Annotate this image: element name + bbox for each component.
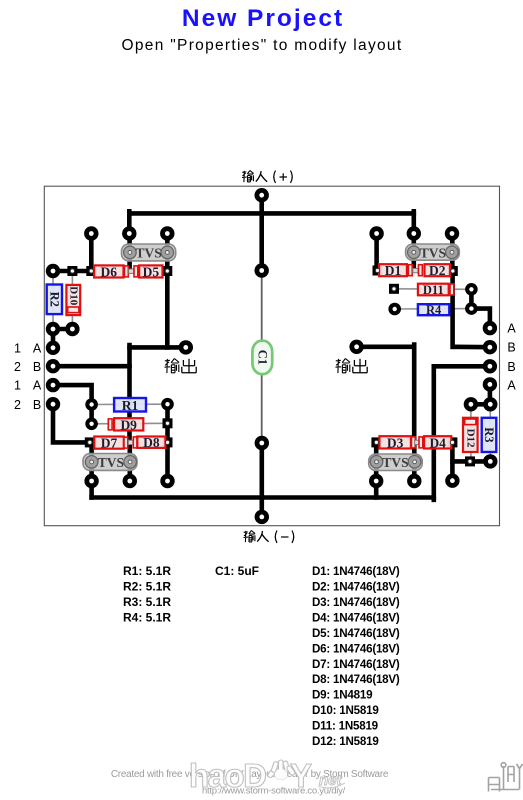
wire D12 R3 bottoms	[453, 459, 491, 464]
wire out-right down	[412, 345, 417, 443]
pad D9 left	[85, 418, 98, 431]
svg-text:TVS: TVS	[98, 455, 124, 470]
resistor R3	[482, 418, 497, 452]
svg-text:D4: 1N4746(18V): D4: 1N4746(18V)	[312, 611, 400, 624]
wire 2B to vertical	[53, 364, 130, 369]
svg-text:New Project: New Project	[182, 5, 344, 32]
svg-text:B: B	[33, 398, 41, 412]
wire to B pad	[434, 364, 490, 369]
junction D6-D5	[129, 269, 134, 273]
pad out-left	[179, 340, 193, 354]
svg-text:D12: D12	[464, 429, 476, 448]
pad 2B-1	[46, 359, 60, 373]
TVS1	[122, 244, 176, 261]
svg-text:D11: D11	[423, 283, 444, 297]
diode D1	[379, 263, 407, 278]
svg-text:D1: D1	[385, 263, 402, 278]
wire down to 1A	[51, 329, 56, 348]
svg-text:TVS: TVS	[382, 455, 408, 470]
wire to B pad right	[453, 344, 490, 349]
band D3	[412, 437, 416, 448]
band D2	[419, 265, 423, 276]
pad N5	[407, 226, 421, 240]
diode D11	[418, 283, 449, 297]
pad R3 top	[483, 397, 497, 411]
svg-text:D6: 1N4746(18V): D6: 1N4746(18V)	[312, 642, 400, 655]
svg-text:D8: 1N4746(18V): D8: 1N4746(18V)	[312, 673, 400, 686]
svg-text:R2: 5.1R: R2: 5.1R	[123, 580, 171, 594]
svg-text:R4: 5.1R: R4: 5.1R	[123, 610, 171, 624]
svg-text:D3: D3	[387, 435, 404, 450]
svg-text:D5: D5	[143, 264, 160, 279]
wire bus up right	[431, 366, 436, 500]
svg-text:haoD: haoD	[189, 757, 266, 794]
pad P6	[445, 474, 459, 488]
wire 1A to R1 D9	[53, 385, 92, 424]
svg-text:TVS: TVS	[420, 245, 446, 260]
wire D5 to out-left	[165, 234, 170, 348]
svg-text:B: B	[33, 360, 41, 374]
TVS3	[83, 454, 137, 471]
band D10	[68, 307, 79, 313]
pad N1	[84, 226, 98, 240]
diode D5	[139, 264, 162, 279]
svg-text:A: A	[507, 322, 516, 336]
pad N3	[160, 226, 174, 240]
pad D5 pin1	[162, 266, 172, 276]
pad D7 pin1	[85, 437, 95, 447]
pad P5	[407, 474, 421, 488]
diode D10	[66, 285, 80, 315]
pad 2B-2	[46, 397, 60, 411]
pad D9 pin1	[163, 418, 173, 428]
pad 1A-1	[46, 341, 60, 355]
wire R1 D9 D8 column	[165, 404, 170, 481]
wire R1 lead	[92, 403, 168, 405]
diode D3	[379, 435, 411, 450]
pad D2 pin1	[448, 266, 458, 276]
band D7	[124, 437, 128, 448]
wire through TVS4 left	[374, 442, 379, 481]
svg-text:D7: D7	[101, 436, 118, 451]
band D8	[133, 437, 137, 448]
wire out-left horiz	[130, 345, 186, 350]
svg-text:D8: D8	[143, 435, 160, 450]
pad D4 pin1	[447, 437, 457, 447]
pad D10 pin1	[67, 266, 77, 276]
svg-text:R3: 5.1R: R3: 5.1R	[123, 595, 171, 609]
wire D4 pin down	[450, 442, 455, 480]
wire bus drop right	[411, 211, 416, 233]
svg-text:R4: R4	[426, 303, 442, 317]
wire D2 to B	[450, 268, 455, 347]
wire to bottom bus right	[374, 479, 379, 498]
pad D12 top	[464, 397, 478, 411]
band D1	[408, 265, 412, 276]
wire through TVS3 left	[411, 234, 416, 270]
svg-text:C1: C1	[255, 350, 269, 365]
pad P1	[84, 474, 98, 488]
band D5	[134, 266, 138, 277]
label input(+)	[242, 171, 254, 183]
diode D8	[137, 435, 165, 450]
wire A to R3 top	[488, 384, 493, 404]
pad R4 left	[388, 303, 401, 316]
label output left	[165, 359, 180, 374]
pad D3 pin1	[371, 437, 381, 447]
wire D2 pin drop	[450, 234, 455, 272]
resistor R1	[114, 398, 146, 413]
pad 1A-2	[46, 378, 60, 392]
wire R4 lead	[395, 308, 472, 310]
wire input+ to C1	[259, 195, 264, 270]
pad R3 bottom	[483, 454, 497, 468]
pad input-	[255, 510, 269, 524]
junction D7-D8	[128, 440, 133, 444]
wire D11 R4 right pads	[469, 289, 474, 308]
pad C1 top	[255, 263, 269, 277]
wire pad to D6 pin	[89, 234, 94, 272]
watermark hand	[267, 760, 296, 780]
svg-text:net: net	[319, 772, 343, 789]
pad D8 pin1	[163, 437, 173, 447]
svg-text:1: 1	[14, 342, 21, 356]
pad R2 top	[46, 264, 60, 278]
pad D12 pin1	[465, 456, 475, 466]
band D12	[465, 419, 476, 425]
wire D9 lead	[92, 422, 168, 425]
svg-text:R3: R3	[482, 427, 496, 442]
TVS4	[369, 454, 423, 471]
wire top bus	[129, 211, 414, 216]
svg-text:D9: 1N4819: D9: 1N4819	[312, 689, 373, 702]
pad P4	[369, 474, 383, 488]
diode D4	[424, 435, 451, 450]
resistor R2	[47, 285, 62, 315]
wire through TVS1 left	[127, 234, 132, 270]
svg-text:A: A	[33, 342, 42, 356]
band D9	[108, 419, 112, 430]
svg-text:D6: D6	[101, 264, 118, 279]
svg-text:C1: 5uF: C1: 5uF	[215, 564, 259, 578]
pad R1 right	[161, 398, 174, 411]
svg-text:A: A	[33, 379, 42, 393]
svg-text:Open "Properties" to modify la: Open "Properties" to modify layout	[122, 37, 403, 54]
svg-text:B: B	[507, 360, 515, 374]
junction D1-D2	[413, 268, 418, 272]
label output right	[336, 359, 351, 374]
svg-text:D10: 1N5819: D10: 1N5819	[312, 704, 379, 717]
svg-text:D5: 1N4746(18V): D5: 1N4746(18V)	[312, 627, 400, 640]
wire through TVS2 left	[89, 442, 94, 481]
junction D3-D4	[415, 440, 420, 444]
pad B-1	[483, 340, 497, 354]
wire out-left down	[127, 345, 132, 442]
pad N6	[445, 226, 459, 240]
pad D11 pin1	[389, 284, 399, 294]
svg-text:D4: D4	[429, 435, 446, 450]
pad input+	[255, 188, 269, 202]
svg-text:D9: D9	[120, 417, 137, 432]
band D4	[419, 437, 423, 448]
svg-text:B: B	[507, 341, 515, 355]
pad A-1	[483, 321, 497, 335]
svg-text:R1: 5.1R: R1: 5.1R	[123, 564, 171, 578]
wire pad to D1 pin	[374, 234, 379, 272]
svg-text:Y: Y	[290, 757, 312, 794]
wire R3 lead	[489, 404, 491, 461]
diode D7	[94, 436, 124, 451]
wire bus drop left	[127, 211, 132, 233]
wire D12 R3 tops	[471, 402, 490, 407]
capacitor C1	[252, 341, 272, 374]
pad D6 pin1	[86, 266, 96, 276]
pad P3	[160, 474, 174, 488]
wire through TVS2 right	[128, 442, 133, 481]
label input(-)	[244, 531, 256, 543]
corner logo	[489, 763, 523, 792]
band D11	[450, 284, 454, 295]
wire out-right horiz	[357, 344, 415, 349]
pad D10 bottom	[65, 322, 79, 336]
svg-text:D12: 1N5819: D12: 1N5819	[312, 735, 379, 748]
wire R2 row	[53, 269, 94, 274]
pad out-right	[349, 340, 363, 354]
svg-text:2: 2	[14, 360, 21, 374]
wire C1 lead	[261, 271, 263, 444]
wire 2B to D7	[53, 404, 90, 442]
resistor R4	[418, 303, 449, 317]
board outline	[44, 186, 499, 526]
wire C1 to input-	[259, 443, 264, 517]
pad D1 pin1	[373, 266, 383, 276]
svg-text:1: 1	[14, 379, 21, 393]
svg-text:D7: 1N4746(18V): D7: 1N4746(18V)	[312, 658, 400, 671]
diode D12	[463, 418, 478, 452]
wire through TVS4 right	[412, 442, 417, 481]
svg-text:D2: 1N4746(18V): D2: 1N4746(18V)	[312, 581, 400, 594]
wire R2 D10 bottoms	[53, 327, 72, 332]
svg-text:R1: R1	[122, 398, 139, 413]
band D6	[125, 266, 129, 277]
pad A-2	[483, 377, 497, 391]
wire bottom bus	[92, 495, 434, 500]
svg-text:D2: D2	[429, 263, 446, 278]
pad N2	[122, 226, 136, 240]
diode D2	[425, 263, 451, 278]
pad R4 right	[465, 302, 478, 315]
svg-text:D1: 1N4746(18V): D1: 1N4746(18V)	[312, 565, 400, 578]
TVS2	[406, 244, 460, 260]
wire D12 lead	[470, 404, 472, 461]
wire D10 lead	[71, 271, 73, 329]
pad C1 bottom	[255, 436, 269, 450]
pad R1 left	[85, 398, 98, 411]
pad N4	[369, 226, 383, 240]
wire D11 lead	[394, 288, 471, 291]
diode D9	[114, 417, 143, 432]
watermark haoDIY logo	[189, 757, 312, 794]
svg-text:A: A	[507, 379, 516, 393]
svg-text:D3: 1N4746(18V): D3: 1N4746(18V)	[312, 596, 400, 609]
pad R2 bottom	[46, 322, 60, 336]
svg-text:TVS: TVS	[135, 245, 161, 260]
pad P2	[123, 474, 137, 488]
wire R4 to A pad	[471, 309, 490, 329]
svg-text:D11: 1N5819: D11: 1N5819	[312, 720, 379, 733]
svg-text:2: 2	[14, 398, 21, 412]
wire R2 lead	[52, 271, 54, 329]
pad D11 right	[465, 283, 478, 296]
wire to bottom bus	[89, 479, 94, 498]
diode D6	[94, 264, 123, 279]
svg-text:R2: R2	[47, 292, 61, 307]
pad B-2	[483, 359, 497, 373]
svg-text:D10: D10	[67, 286, 79, 305]
